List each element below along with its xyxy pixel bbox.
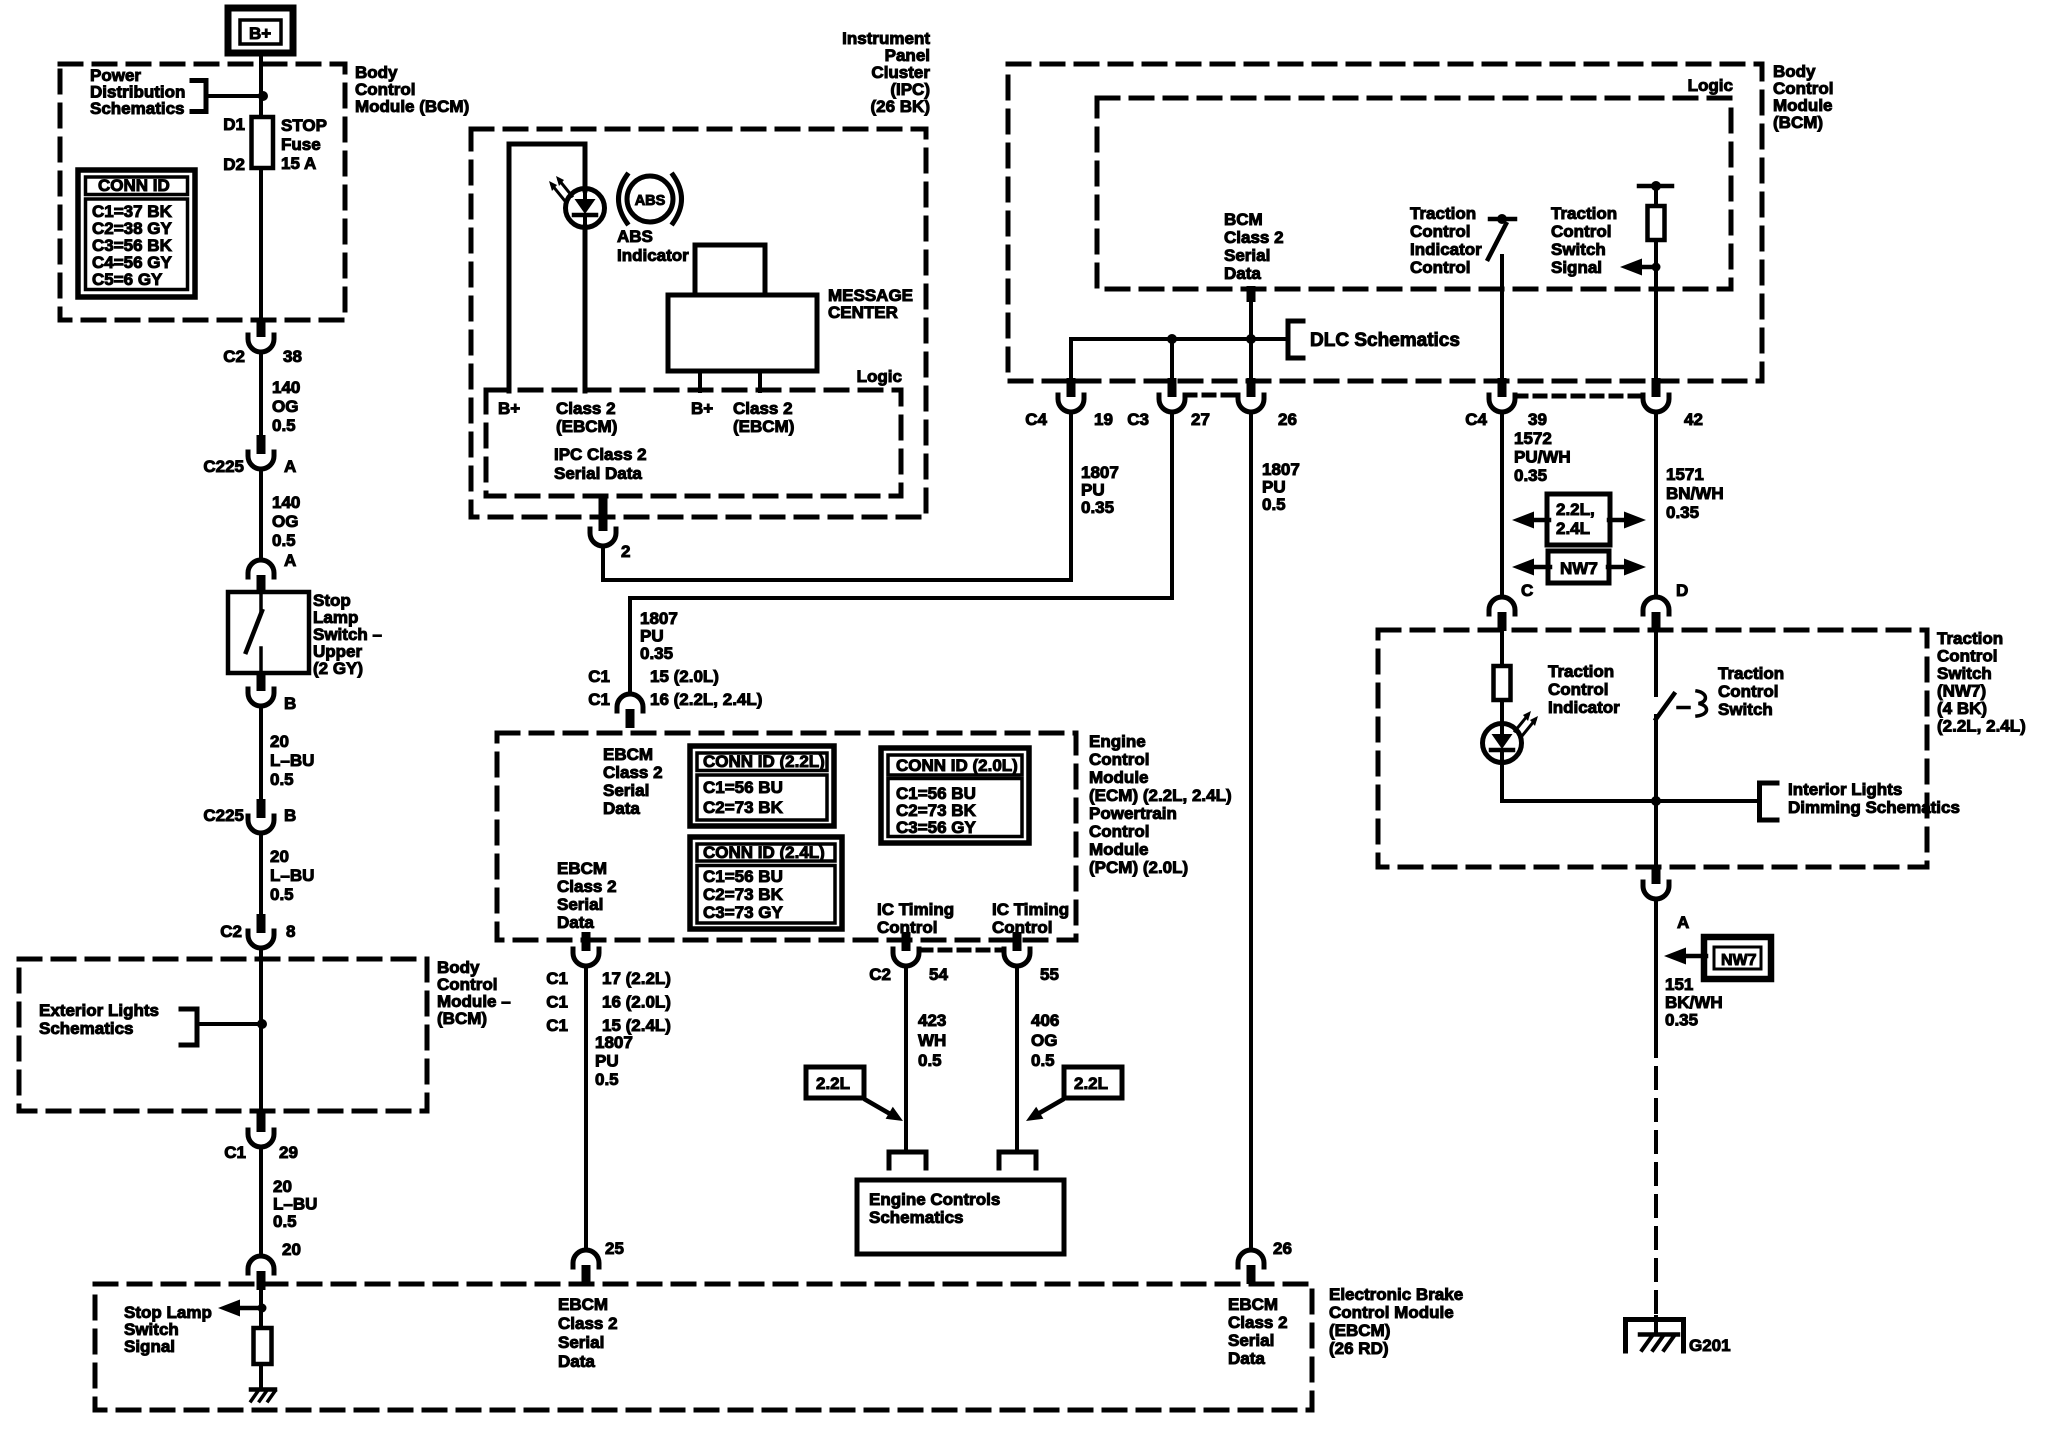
- wire into BCM exterior lights box: [259, 948, 263, 1021]
- svg-text:Switch: Switch: [1937, 664, 1992, 683]
- power symbol B+ battery feed: [228, 8, 293, 53]
- svg-text:Class 2: Class 2: [557, 877, 617, 896]
- svg-text:BK/WH: BK/WH: [1665, 993, 1723, 1012]
- svg-text:(PCM) (2.0L): (PCM) (2.0L): [1089, 858, 1188, 877]
- svg-text:Traction: Traction: [1937, 629, 2003, 648]
- svg-text:C2: C2: [223, 347, 245, 366]
- bracket Interior Lights Dimming Schematics: [1760, 783, 1778, 820]
- svg-text:C3=56 GY: C3=56 GY: [896, 818, 977, 837]
- svg-text:39: 39: [1528, 410, 1547, 429]
- svg-text:EBCM: EBCM: [603, 745, 653, 764]
- svg-text:PU: PU: [1081, 481, 1105, 500]
- svg-text:ABS: ABS: [635, 193, 666, 209]
- svg-text:20: 20: [282, 1240, 301, 1259]
- svg-text:Switch: Switch: [1551, 240, 1606, 259]
- wire resistor to LED: [1500, 700, 1504, 724]
- svg-text:19: 19: [1094, 410, 1113, 429]
- ground G201: [1626, 1317, 1684, 1351]
- wire resistor to ground: [259, 1364, 263, 1389]
- svg-text:0.35: 0.35: [1514, 466, 1547, 485]
- svg-text:Serial: Serial: [1228, 1331, 1274, 1350]
- terminal bracket IC timing left: [889, 1152, 926, 1168]
- lamp traction control indicator LED: [1483, 711, 1539, 763]
- svg-text:Dimming Schematics: Dimming Schematics: [1788, 798, 1960, 817]
- svg-text:Control: Control: [1410, 222, 1470, 241]
- svg-text:Schematics: Schematics: [39, 1019, 134, 1038]
- svg-text:Switch: Switch: [1718, 700, 1773, 719]
- connector C225 cavity A: [248, 435, 274, 469]
- svg-text:Control: Control: [992, 918, 1052, 937]
- bracket DLC Schematics: [1288, 321, 1303, 358]
- connector C into traction switch: [1489, 597, 1515, 631]
- svg-text:B+: B+: [249, 24, 271, 43]
- svg-text:A: A: [284, 457, 296, 476]
- wire 42 to switch D: [1654, 412, 1658, 595]
- wire 1807 PU 0.35 BCM C3 to EBCM: [630, 412, 1172, 694]
- svg-text:2.4L: 2.4L: [1556, 519, 1590, 538]
- connector switch terminal B: [248, 672, 274, 706]
- svg-text:IC Timing: IC Timing: [992, 900, 1069, 919]
- connector pin 26 into EBCM: [1238, 1250, 1264, 1284]
- svg-text:Class 2: Class 2: [733, 399, 793, 418]
- svg-text:WH: WH: [918, 1031, 946, 1050]
- svg-text:Module: Module: [1089, 768, 1149, 787]
- module box Instrument Panel Cluster: [471, 129, 926, 517]
- svg-text:Engine: Engine: [1089, 732, 1146, 751]
- svg-text:54: 54: [929, 965, 948, 984]
- svg-text:Powertrain: Powertrain: [1089, 804, 1177, 823]
- svg-text:25: 25: [605, 1239, 624, 1258]
- junction node dimming at switch wire: [1651, 796, 1661, 806]
- wire LED to logic: [583, 227, 588, 391]
- svg-text:ABS: ABS: [617, 227, 653, 246]
- module box BCM top-left (Body Control Module): [60, 64, 345, 320]
- svg-text:Class 2: Class 2: [558, 1314, 618, 1333]
- svg-text:Serial: Serial: [1224, 246, 1270, 265]
- connector C3 pin 27: [1159, 378, 1185, 412]
- svg-text:C1: C1: [588, 667, 610, 686]
- svg-text:(NW7): (NW7): [1937, 682, 1986, 701]
- switch traction control indicator driver: [1488, 214, 1515, 259]
- svg-text:Indicator: Indicator: [1410, 240, 1482, 259]
- connector pin 25 into EBCM: [573, 1250, 599, 1284]
- svg-text:2.2L: 2.2L: [1074, 1074, 1108, 1093]
- svg-text:(EBCM): (EBCM): [733, 417, 794, 436]
- svg-text:2: 2: [621, 542, 630, 561]
- logic box BCM: [1097, 98, 1731, 289]
- svg-text:C2: C2: [869, 965, 891, 984]
- wire 140 OG 0.5 lower: [259, 469, 263, 556]
- svg-text:Traction: Traction: [1718, 664, 1784, 683]
- svg-text:D2: D2: [223, 155, 245, 174]
- svg-text:(EBCM): (EBCM): [1329, 1321, 1390, 1340]
- switch traction control momentary: [1656, 691, 1707, 719]
- svg-text:16 (2.0L): 16 (2.0L): [602, 993, 671, 1012]
- module box BCM (Exterior Lights): [19, 959, 427, 1111]
- callout 2.2L 2.4L applicability: [1512, 494, 1646, 545]
- svg-text:C1: C1: [546, 969, 568, 988]
- connector into stop lamp switch: [248, 560, 274, 594]
- svg-text:EBCM: EBCM: [1228, 1295, 1278, 1314]
- svg-text:Logic: Logic: [1688, 76, 1733, 95]
- svg-text:C1: C1: [546, 993, 568, 1012]
- svg-text:Control: Control: [1937, 647, 1997, 666]
- svg-text:Electronic Brake: Electronic Brake: [1329, 1285, 1463, 1304]
- svg-text:Logic: Logic: [857, 367, 902, 386]
- connector C2 pin 54: [893, 932, 919, 966]
- svg-text:Signal: Signal: [124, 1337, 175, 1356]
- svg-text:Data: Data: [558, 1352, 595, 1371]
- svg-text:Schematics: Schematics: [90, 99, 185, 118]
- svg-text:L–BU: L–BU: [270, 751, 314, 770]
- wire C4 19 riser: [1069, 339, 1073, 382]
- svg-text:Data: Data: [1228, 1349, 1265, 1368]
- svg-text:CONN ID: CONN ID: [98, 176, 170, 195]
- svg-text:NW7: NW7: [1560, 559, 1598, 578]
- svg-text:OG: OG: [272, 512, 298, 531]
- svg-text:0.35: 0.35: [1081, 498, 1114, 517]
- junction node exterior lights: [257, 1019, 267, 1029]
- wire to internal resistor: [259, 1287, 263, 1328]
- connector C1 EBCM serial out: [573, 932, 599, 966]
- svg-text:C3=73 GY: C3=73 GY: [703, 903, 784, 922]
- svg-text:Signal: Signal: [1551, 258, 1602, 277]
- svg-text:20: 20: [270, 732, 289, 751]
- wire LED to dimming bus: [1500, 762, 1504, 801]
- wire message center class 2: [758, 371, 762, 391]
- junction node on B+ feed: [258, 91, 268, 101]
- svg-text:1807: 1807: [1262, 460, 1300, 479]
- wire 20 L-BU 0.5 seg1: [259, 706, 263, 800]
- svg-text:Serial: Serial: [558, 1333, 604, 1352]
- svg-text:8: 8: [286, 922, 295, 941]
- svg-text:(4 BK): (4 BK): [1937, 699, 1987, 718]
- svg-text:140: 140: [272, 378, 300, 397]
- svg-text:0.5: 0.5: [1262, 495, 1286, 514]
- bracket to Power Distribution Schematics: [192, 81, 206, 112]
- svg-text:EBCM: EBCM: [557, 859, 607, 878]
- arrow stop lamp switch signal: [218, 1300, 262, 1317]
- svg-text:1572: 1572: [1514, 429, 1552, 448]
- wire C4 39 to switch C: [1500, 412, 1504, 595]
- stub IPC pin 2: [599, 496, 608, 516]
- svg-text:STOP: STOP: [281, 116, 327, 135]
- svg-text:C5=6 GY: C5=6 GY: [92, 270, 163, 289]
- connector C1 pin 29: [248, 1113, 274, 1147]
- fuse STOP 15A: [252, 117, 274, 168]
- wire C to resistor: [1500, 632, 1504, 666]
- connector C1 into EBCM middle: [617, 694, 643, 728]
- svg-text:1571: 1571: [1666, 465, 1704, 484]
- svg-text:(BCM): (BCM): [1773, 113, 1823, 132]
- svg-text:Data: Data: [603, 799, 640, 818]
- table CONN ID (2.2L): [690, 746, 834, 826]
- wire C3 27 riser: [1170, 339, 1174, 382]
- svg-text:PU: PU: [640, 627, 664, 646]
- callout 2.2L left: [806, 1067, 903, 1121]
- svg-text:Control: Control: [1089, 822, 1149, 841]
- wire message center B+: [698, 371, 702, 391]
- svg-text:C1=56 BU: C1=56 BU: [703, 778, 783, 797]
- svg-text:0.5: 0.5: [270, 770, 294, 789]
- callout NW7 signal source: [1664, 937, 1771, 979]
- svg-text:C2: C2: [220, 922, 242, 941]
- module box ECM/PCM middle: [497, 733, 1076, 940]
- svg-text:C225: C225: [203, 806, 244, 825]
- svg-text:CONN ID (2.2L): CONN ID (2.2L): [703, 752, 825, 771]
- svg-text:0.5: 0.5: [1031, 1051, 1055, 1070]
- wire Power Distribution tap: [206, 94, 262, 98]
- svg-text:(2 GY): (2 GY): [313, 659, 363, 678]
- svg-text:Module: Module: [1089, 840, 1149, 859]
- svg-text:Control: Control: [1089, 750, 1149, 769]
- svg-text:0.5: 0.5: [272, 531, 296, 550]
- svg-text:26: 26: [1278, 410, 1297, 429]
- svg-text:42: 42: [1684, 410, 1703, 429]
- svg-text:Indicator: Indicator: [617, 246, 689, 265]
- box Engine Controls Schematics: [857, 1180, 1064, 1254]
- wire BCM box to C1 connector: [259, 1024, 263, 1113]
- svg-text:Serial Data: Serial Data: [554, 464, 642, 483]
- svg-text:B+: B+: [691, 399, 713, 418]
- svg-text:BCM: BCM: [1224, 210, 1263, 229]
- svg-text:29: 29: [279, 1143, 298, 1162]
- svg-text:IC Timing: IC Timing: [877, 900, 954, 919]
- svg-text:(26 BK): (26 BK): [870, 97, 930, 116]
- svg-text:C1: C1: [588, 690, 610, 709]
- wire D to switch blade: [1654, 632, 1658, 695]
- svg-text:C1=56 BU: C1=56 BU: [703, 867, 783, 886]
- svg-text:Engine Controls: Engine Controls: [869, 1190, 1000, 1209]
- wire fuse to C2 connector: [259, 168, 263, 320]
- svg-text:Class 2: Class 2: [603, 763, 663, 782]
- svg-text:PU/WH: PU/WH: [1514, 448, 1571, 467]
- svg-text:EBCM: EBCM: [558, 1295, 608, 1314]
- component message center display: [668, 245, 817, 371]
- svg-text:NW7: NW7: [1721, 952, 1757, 969]
- wire 140 OG 0.5 upper: [259, 352, 263, 437]
- table CONN ID (2.4L): [690, 837, 842, 929]
- svg-text:20: 20: [270, 847, 289, 866]
- wire exterior lights tap: [197, 1022, 262, 1026]
- svg-text:C1: C1: [224, 1143, 246, 1162]
- svg-text:CONN ID (2.0L): CONN ID (2.0L): [896, 756, 1018, 775]
- svg-text:1807: 1807: [595, 1033, 633, 1052]
- svg-text:C4: C4: [1025, 410, 1047, 429]
- table CONN ID (BCM): [78, 170, 195, 297]
- svg-text:55: 55: [1040, 965, 1059, 984]
- svg-text:27: 27: [1191, 410, 1210, 429]
- wire 20 L-BU 0.5 seg2: [259, 833, 263, 914]
- svg-text:26: 26: [1273, 1239, 1292, 1258]
- svg-text:PU: PU: [595, 1052, 619, 1071]
- wire indicator control to C4: [1500, 256, 1504, 382]
- callout 2.2L right: [1026, 1067, 1122, 1121]
- svg-text:A: A: [1677, 913, 1689, 932]
- component stop lamp switch - upper (2 GY): [228, 592, 309, 673]
- wire 1807 PU 0.5 to EBCM 25: [584, 966, 588, 1250]
- terminal bar switch signal pull-up: [1639, 181, 1672, 191]
- wire interior lights dimming bus: [1502, 799, 1757, 803]
- svg-text:A: A: [284, 551, 296, 570]
- svg-text:15 A: 15 A: [281, 154, 316, 173]
- connector row dash C3-26: [1185, 393, 1237, 398]
- svg-text:2.2L: 2.2L: [816, 1074, 850, 1093]
- connector IPC pin 2: [590, 512, 616, 546]
- svg-text:OG: OG: [1031, 1031, 1057, 1050]
- wire A to NW7 junction: [1654, 899, 1658, 1032]
- svg-text:20: 20: [273, 1177, 292, 1196]
- svg-text:Traction: Traction: [1410, 204, 1476, 223]
- icon ABS warning symbol: [619, 175, 682, 223]
- svg-text:Class 2: Class 2: [1224, 228, 1284, 247]
- junction node stop lamp signal: [258, 1304, 267, 1313]
- svg-text:16 (2.2L, 2.4L): 16 (2.2L, 2.4L): [650, 690, 762, 709]
- junction node DLC at C3: [1167, 334, 1177, 344]
- connector row dash 39-42: [1516, 394, 1642, 399]
- svg-text:D1: D1: [223, 115, 245, 134]
- wire 20 L-BU 0.5 seg3: [259, 1147, 263, 1252]
- connector D into traction switch: [1643, 597, 1669, 631]
- connector C2 pin 8: [248, 914, 274, 948]
- connector C225 cavity B: [248, 799, 274, 833]
- module box EBCM bottom (Electronic Brake Control Module): [95, 1284, 1312, 1410]
- svg-text:(EBCM): (EBCM): [556, 417, 617, 436]
- svg-text:Traction: Traction: [1548, 662, 1614, 681]
- svg-text:PU: PU: [1262, 478, 1286, 497]
- svg-text:CENTER: CENTER: [828, 303, 898, 322]
- connector pin 55: [1004, 932, 1030, 966]
- svg-text:0.5: 0.5: [270, 885, 294, 904]
- svg-text:Serial: Serial: [557, 895, 603, 914]
- svg-text:0.5: 0.5: [273, 1212, 297, 1231]
- svg-text:0.35: 0.35: [640, 644, 673, 663]
- svg-text:140: 140: [272, 493, 300, 512]
- terminal bracket IC timing right: [999, 1152, 1036, 1168]
- svg-text:0.35: 0.35: [1666, 503, 1699, 522]
- connector pin 42: [1643, 378, 1669, 412]
- svg-text:IPC Class 2: IPC Class 2: [554, 445, 647, 464]
- svg-text:DLC Schematics: DLC Schematics: [1310, 330, 1460, 351]
- svg-text:Fuse: Fuse: [281, 135, 321, 154]
- svg-text:1807: 1807: [640, 609, 678, 628]
- svg-text:Control: Control: [1551, 222, 1611, 241]
- svg-text:Traction: Traction: [1551, 204, 1617, 223]
- wire switch to A: [1654, 716, 1658, 866]
- connector C4 pin 39: [1489, 378, 1515, 412]
- svg-text:423: 423: [918, 1011, 946, 1030]
- svg-text:Control Module: Control Module: [1329, 1303, 1454, 1322]
- svg-text:L–BU: L–BU: [270, 866, 314, 885]
- svg-text:(26 RD): (26 RD): [1329, 1339, 1389, 1358]
- svg-text:CONN ID (2.4L): CONN ID (2.4L): [703, 843, 825, 862]
- wire B+ to BCM fuse: [259, 53, 263, 118]
- table CONN ID (2.0L): [881, 748, 1029, 843]
- svg-text:B: B: [284, 806, 296, 825]
- svg-text:C2=73 BK: C2=73 BK: [703, 798, 784, 817]
- ground internal EBCM: [251, 1390, 275, 1402]
- svg-text:Exterior Lights: Exterior Lights: [39, 1001, 159, 1020]
- bracket Exterior Lights Schematics: [181, 1009, 197, 1045]
- wire IPC lamp feed loop: [509, 144, 585, 391]
- svg-text:(2.2L, 2.4L): (2.2L, 2.4L): [1937, 717, 2026, 736]
- arrow traction switch signal input: [1620, 259, 1656, 276]
- svg-text:Interior Lights: Interior Lights: [1788, 780, 1902, 799]
- wire DLC serial data bus: [1071, 337, 1288, 341]
- svg-text:Serial: Serial: [603, 781, 649, 800]
- svg-text:Control: Control: [1410, 258, 1470, 277]
- svg-text:2.2L,: 2.2L,: [1556, 500, 1595, 519]
- resistor traction indicator: [1494, 666, 1511, 700]
- svg-text:Control: Control: [1718, 682, 1778, 701]
- connector terminal 20 into EBCM: [248, 1256, 274, 1290]
- svg-text:1807: 1807: [1081, 463, 1119, 482]
- logic box IPC: [486, 390, 901, 496]
- svg-text:0.5: 0.5: [595, 1070, 619, 1089]
- svg-text:C1: C1: [546, 1016, 568, 1035]
- svg-text:C3: C3: [1127, 410, 1149, 429]
- svg-text:D: D: [1676, 581, 1688, 600]
- svg-text:151: 151: [1665, 975, 1693, 994]
- svg-text:C2=73 BK: C2=73 BK: [703, 885, 784, 904]
- svg-text:0.5: 0.5: [272, 416, 296, 435]
- resistor EBCM internal pulldown: [254, 1328, 272, 1364]
- connector pin 26 top: [1238, 378, 1264, 412]
- svg-text:BN/WH: BN/WH: [1666, 484, 1724, 503]
- svg-text:38: 38: [283, 347, 302, 366]
- svg-text:17 (2.2L): 17 (2.2L): [602, 969, 671, 988]
- svg-text:Schematics: Schematics: [869, 1208, 964, 1227]
- module box BCM right (Body Control Module): [1008, 64, 1762, 381]
- svg-text:(BCM): (BCM): [437, 1009, 487, 1028]
- svg-text:406: 406: [1031, 1011, 1059, 1030]
- module box traction control switch: [1378, 630, 1927, 867]
- svg-text:L–BU: L–BU: [273, 1195, 317, 1214]
- svg-text:C225: C225: [203, 457, 244, 476]
- svg-text:Data: Data: [1224, 264, 1261, 283]
- svg-text:G201: G201: [1689, 1336, 1731, 1355]
- connector C4 pin 19: [1058, 378, 1084, 412]
- wire 406 OG 0.5: [1015, 966, 1019, 1152]
- svg-text:Data: Data: [557, 913, 594, 932]
- svg-text:Class 2: Class 2: [556, 399, 616, 418]
- junction node DLC at serial data: [1246, 334, 1256, 344]
- wire BCM serial data stub: [1247, 286, 1256, 302]
- svg-text:B: B: [284, 694, 296, 713]
- wire 1807 PU 0.5 BCM 26 to EBCM: [1249, 412, 1253, 1250]
- connector A traction switch: [1643, 865, 1669, 899]
- resistor switch signal pull-up: [1654, 186, 1658, 206]
- svg-text:Indicator: Indicator: [1548, 698, 1620, 717]
- lamp ABS indicator LED: [549, 176, 605, 228]
- wire pull-up to 42: [1654, 240, 1658, 382]
- wire 151 BK/WH dashed to ground: [1654, 1036, 1658, 1317]
- svg-text:15 (2.0L): 15 (2.0L): [650, 667, 719, 686]
- svg-text:B+: B+: [498, 399, 520, 418]
- connector row dash 54-55: [921, 948, 1003, 953]
- svg-text:Class 2: Class 2: [1228, 1313, 1288, 1332]
- svg-text:OG: OG: [272, 397, 298, 416]
- connector C2 pin 38 (BCM): [248, 318, 274, 352]
- svg-text:(ECM) (2.2L, 2.4L): (ECM) (2.2L, 2.4L): [1089, 786, 1232, 805]
- callout NW7 applicability: [1512, 551, 1646, 583]
- svg-text:Module (BCM): Module (BCM): [355, 97, 469, 116]
- svg-text:C: C: [1521, 581, 1533, 600]
- svg-text:0.5: 0.5: [918, 1051, 942, 1070]
- svg-text:Control: Control: [1548, 680, 1608, 699]
- wire 423 WH 0.5: [904, 966, 908, 1152]
- svg-text:C4: C4: [1465, 410, 1487, 429]
